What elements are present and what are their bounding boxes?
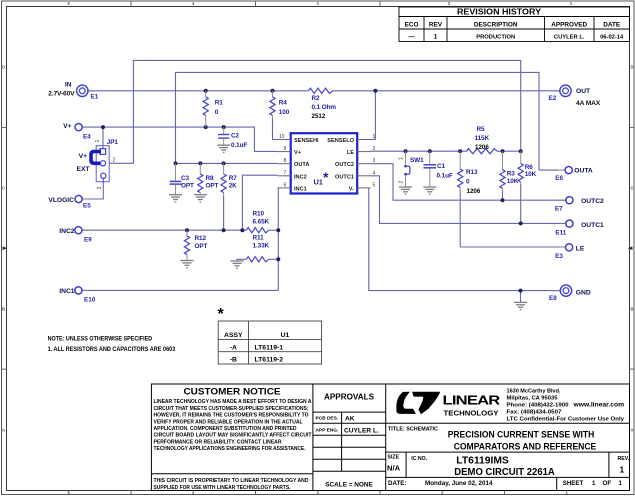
svg-text:R6: R6: [525, 164, 534, 171]
svg-text:E1: E1: [91, 94, 99, 101]
svg-text:0: 0: [466, 179, 470, 186]
size / ic no / rev row: [387, 455, 630, 478]
terminal E9: [75, 227, 82, 234]
terminal E2 lead: [554, 90, 561, 92]
svg-text:OUTC1: OUTC1: [581, 222, 604, 229]
terminal E4 lead: [82, 126, 89, 128]
svg-text:2K: 2K: [229, 183, 237, 190]
svg-text:5: 5: [373, 182, 376, 188]
svg-text:LT6119-1: LT6119-1: [255, 344, 284, 351]
ground under C1: [423, 187, 436, 194]
svg-text:*: *: [323, 169, 329, 185]
svg-text:JP1: JP1: [107, 139, 119, 146]
terminal E2: [560, 85, 571, 96]
resistor R3: [500, 151, 505, 191]
terminal E3 lead: [559, 246, 566, 248]
svg-text:E10: E10: [84, 297, 96, 304]
svg-text:TECHNOLOGY APPLICATIONS ENGINE: TECHNOLOGY APPLICATIONS ENGINEERING FOR …: [154, 446, 306, 452]
wire R11 right: [269, 258, 279, 260]
svg-text:LE: LE: [576, 246, 585, 253]
svg-text:-B: -B: [230, 357, 237, 364]
svg-text:SIZE: SIZE: [388, 455, 400, 461]
wire R10 right to INC1 node: [269, 229, 279, 231]
svg-text:REVISION HISTORY: REVISION HISTORY: [457, 8, 542, 17]
svg-text:C: C: [630, 186, 633, 191]
svg-text:R3: R3: [507, 171, 516, 178]
svg-text:1630 McCarthy Blvd.: 1630 McCarthy Blvd.: [507, 389, 561, 395]
wire pin3 OUTC2 to E7: [371, 164, 567, 201]
svg-text:DESCRIPTION: DESCRIPTION: [474, 21, 518, 28]
svg-text:E2: E2: [549, 95, 557, 102]
wire IN line left of R2: [87, 90, 308, 92]
wire LE rail right of R5: [497, 150, 521, 152]
svg-text:CUYLER L.: CUYLER L.: [554, 35, 585, 41]
svg-text:0.1uF: 0.1uF: [231, 142, 247, 149]
svg-text:SENSELO: SENSELO: [327, 138, 354, 144]
note text: [48, 337, 176, 354]
svg-text:VLOGIC: VLOGIC: [48, 197, 74, 204]
svg-text:LT6119-2: LT6119-2: [255, 357, 284, 364]
svg-text:SUPPLIED FOR USE WITH LINEAR T: SUPPLIED FOR USE WITH LINEAR TECHNOLOGY …: [154, 485, 291, 491]
wire IN line right of R2 to OUT: [333, 90, 561, 92]
svg-text:NOTE: UNLESS OTHERWISE SPECIFI: NOTE: UNLESS OTHERWISE SPECIFIED: [48, 337, 153, 343]
wire E4 to JP1 pin1: [102, 127, 104, 149]
svg-text:APP ENG.: APP ENG.: [316, 428, 339, 434]
svg-text:3: 3: [97, 187, 103, 190]
title block frame: [151, 384, 629, 491]
svg-text:R2: R2: [312, 95, 321, 102]
Linear Technology logo: [396, 392, 500, 418]
svg-text:1: 1: [434, 34, 438, 41]
wire R6 bottom: [520, 185, 522, 224]
svg-text:R13: R13: [466, 169, 478, 176]
jumper JP1: [91, 146, 109, 182]
customer notice: [154, 387, 313, 491]
svg-text:PCB DES.: PCB DES.: [316, 416, 339, 422]
node IN: [48, 82, 75, 98]
svg-text:OPT: OPT: [206, 183, 219, 190]
svg-text:A: A: [2, 428, 5, 433]
svg-text:115K: 115K: [475, 135, 490, 142]
svg-text:06-02-14: 06-02-14: [600, 35, 624, 41]
svg-text:COMPARATORS AND REFERENCE: COMPARATORS AND REFERENCE: [454, 441, 597, 452]
terminal E10: [75, 287, 82, 294]
svg-text:6.65K: 6.65K: [253, 218, 270, 225]
svg-text:E11: E11: [555, 230, 566, 237]
capacitor C1: [424, 151, 437, 187]
svg-text:2512: 2512: [312, 113, 326, 120]
svg-text:DATE: DATE: [603, 21, 621, 28]
svg-text:U1: U1: [314, 178, 323, 187]
wire V+ rail: [82, 127, 278, 151]
svg-text:Monday, June 02, 2014: Monday, June 02, 2014: [425, 480, 493, 487]
svg-text:R10: R10: [253, 210, 265, 217]
svg-text:N/A: N/A: [387, 464, 401, 473]
resistor R12: [184, 230, 189, 260]
wire R11 left stub to ground: [237, 259, 246, 261]
svg-text:1. ALL RESISTORS AND CAPACITO: 1. ALL RESISTORS AND CAPACITORS ARE 0603: [48, 347, 176, 353]
date row: [388, 480, 623, 487]
resistor R6: [518, 151, 523, 185]
svg-text:B: B: [630, 307, 633, 312]
svg-text:V+: V+: [294, 150, 302, 156]
svg-text:*: *: [218, 306, 225, 323]
svg-text:V+: V+: [63, 123, 71, 130]
svg-text:IC NO.: IC NO.: [411, 456, 427, 462]
svg-text:10K: 10K: [507, 178, 519, 185]
resistor R1: [203, 91, 208, 127]
op-amp U1: [278, 133, 371, 193]
svg-text:E5: E5: [83, 203, 91, 210]
svg-text:R8: R8: [206, 175, 215, 182]
revision history table: [399, 7, 630, 42]
svg-text:Phone: (408)432-1900: Phone: (408)432-1900: [507, 403, 569, 409]
svg-text:INC1: INC1: [294, 186, 307, 192]
approvals block: [316, 393, 379, 489]
svg-text:R4: R4: [279, 100, 288, 107]
svg-text:LE: LE: [347, 150, 354, 156]
svg-text:CUSTOMER NOTICE: CUSTOMER NOTICE: [184, 387, 281, 397]
terminal E8 lead: [554, 290, 561, 292]
svg-text:R12: R12: [195, 235, 207, 242]
ground under SW1: [399, 187, 412, 194]
wire LE rail left of R5: [371, 150, 467, 152]
wire OUTA rail: [176, 162, 278, 164]
svg-text:SHEET: SHEET: [563, 480, 584, 487]
svg-text:TECHNOLOGY: TECHNOLOGY: [444, 411, 499, 418]
svg-text:E8: E8: [549, 295, 557, 302]
wire INC2 line: [82, 229, 246, 231]
svg-text:INC1: INC1: [59, 288, 75, 295]
svg-text:TITLE: SCHEMATIC: TITLE: SCHEMATIC: [388, 427, 438, 433]
terminal E7 lead: [559, 199, 566, 201]
svg-text:10: 10: [279, 134, 285, 140]
terminal E1 lead: [88, 90, 95, 92]
switch SW1: [404, 151, 410, 187]
svg-text:HOWEVER, IT REMAINS THE CUSTOM: HOWEVER, IT REMAINS THE CUSTOMER'S RESPO…: [154, 413, 309, 419]
svg-text:—: —: [408, 34, 415, 41]
terminal E11: [566, 220, 573, 227]
svg-text:SENSEHI: SENSEHI: [294, 138, 319, 144]
terminal E1: [77, 85, 88, 96]
resistor R8: [198, 163, 203, 194]
svg-text:100: 100: [279, 109, 290, 116]
svg-text:ECO: ECO: [405, 21, 419, 28]
svg-text:7: 7: [284, 170, 287, 176]
svg-text:www.linear.com: www.linear.com: [572, 402, 624, 409]
svg-text:C1: C1: [437, 163, 446, 170]
svg-text:R7: R7: [229, 175, 238, 182]
svg-text:0: 0: [215, 109, 219, 116]
svg-text:SW1: SW1: [410, 157, 424, 164]
svg-text:2: 2: [373, 146, 376, 152]
svg-text:B: B: [2, 307, 5, 312]
svg-text:CUYLER L.: CUYLER L.: [344, 427, 379, 434]
ground under C3: [169, 195, 182, 202]
wire gnd stub on GND line: [520, 291, 522, 303]
svg-text:PRECISION CURRENT SENSE WITH: PRECISION CURRENT SENSE WITH: [448, 429, 595, 440]
resistor R11: [246, 257, 268, 262]
terminal E10 lead: [82, 289, 89, 291]
resistor R2: [309, 88, 333, 93]
svg-text:E7: E7: [555, 205, 563, 212]
svg-text:E4: E4: [83, 134, 91, 141]
resistor R10: [246, 228, 268, 233]
svg-text:VERIFY PROPER AND RELIABLE OPE: VERIFY PROPER AND RELIABLE OPERATION IN …: [154, 419, 304, 425]
wire LE line to E3: [460, 246, 566, 248]
resistor R5: [467, 149, 498, 154]
svg-text:0.1 Ohm: 0.1 Ohm: [312, 104, 337, 111]
svg-text:REV: REV: [429, 21, 443, 28]
assembly table: [218, 306, 322, 364]
svg-text:1: 1: [592, 480, 596, 487]
svg-text:4: 4: [373, 170, 376, 176]
svg-text:PERFORMANCE OR RELIABILITY. C: PERFORMANCE OR RELIABILITY. CONTACT LINE…: [154, 439, 282, 445]
title row: [388, 427, 596, 452]
svg-text:LT6119IMS: LT6119IMS: [456, 456, 509, 467]
svg-text:C2: C2: [231, 132, 240, 139]
svg-text:C: C: [2, 186, 5, 191]
svg-text:E9: E9: [84, 237, 92, 244]
svg-text:CIRCUIT BOARD LAYOUT MAY SIGNI: CIRCUIT BOARD LAYOUT MAY SIGNIFICANTLY A…: [154, 433, 313, 439]
svg-text:LTC Confidential-For Customer: LTC Confidential-For Customer Use Only: [507, 417, 626, 423]
terminal E4: [75, 124, 82, 131]
wire pin7 INC2: [242, 175, 277, 230]
wire R13 bottom to LE line: [459, 190, 461, 247]
svg-text:THIS CIRCUIT IS PROPRIETARY TO: THIS CIRCUIT IS PROPRIETARY TO LINEAR TE…: [154, 478, 309, 484]
svg-text:10K: 10K: [525, 171, 537, 178]
svg-text:1: 1: [619, 480, 623, 487]
ground under C2: [217, 145, 230, 152]
svg-text:1: 1: [620, 465, 625, 475]
svg-text:4A MAX: 4A MAX: [576, 100, 601, 107]
wire R7 bottom: [223, 196, 225, 231]
svg-text:Fax: (408)434-0507: Fax: (408)434-0507: [507, 410, 562, 416]
svg-text:AK: AK: [345, 415, 355, 422]
terminal E11 lead: [559, 222, 566, 224]
svg-text:E6: E6: [555, 175, 563, 182]
wire pin6 INC1 vertical: [277, 188, 280, 291]
svg-text:DATE:: DATE:: [388, 480, 406, 487]
svg-text:CIRCUIT THAT MEETS CUSTOMER-SU: CIRCUIT THAT MEETS CUSTOMER-SUPPLIED SPE…: [154, 406, 309, 412]
terminal E8: [560, 285, 571, 296]
svg-text:EXT: EXT: [76, 166, 90, 173]
ground under R8: [194, 195, 207, 202]
svg-text:9: 9: [284, 146, 287, 152]
terminal E7: [566, 197, 573, 204]
svg-text:D: D: [2, 65, 5, 70]
svg-text:1: 1: [95, 140, 101, 143]
svg-text:V+: V+: [79, 153, 87, 160]
svg-text:OUTC2: OUTC2: [581, 198, 604, 205]
svg-text:LINEAR TECHNOLOGY HAS MADE A B: LINEAR TECHNOLOGY HAS MADE A BEST EFFORT…: [154, 399, 312, 405]
svg-text:PRODUCTION: PRODUCTION: [476, 35, 515, 41]
terminal E5 lead: [82, 198, 89, 200]
svg-text:V-: V-: [349, 186, 354, 192]
wire R4 bottom to pin10: [273, 119, 278, 140]
ground on GND line: [514, 302, 527, 309]
svg-text:C3: C3: [181, 175, 190, 182]
resistor R13: [458, 151, 463, 190]
ground under R12: [181, 261, 194, 268]
svg-text:APPROVED: APPROVED: [551, 21, 587, 28]
svg-text:OF: OF: [603, 480, 612, 487]
wire rail2 OUTA to E6: [176, 72, 559, 170]
svg-text:APPROVALS: APPROVALS: [324, 393, 374, 402]
ground at R11: [231, 261, 244, 268]
svg-text:OUTA: OUTA: [574, 168, 593, 175]
wire rail1 JP1 pin2 to LE pullup: [109, 60, 521, 163]
svg-text:2.7V-60V: 2.7V-60V: [48, 90, 75, 97]
svg-text:1: 1: [373, 134, 376, 140]
node OUT: [576, 88, 601, 107]
svg-text:Milpitas, CA 95035: Milpitas, CA 95035: [507, 396, 558, 402]
resistor R7: [221, 163, 226, 195]
svg-text:OUT: OUT: [576, 88, 591, 95]
svg-text:OUTC2: OUTC2: [335, 162, 354, 168]
svg-text:A: A: [630, 428, 633, 433]
wire SENSELO pin1 to IN line: [371, 91, 376, 140]
terminal E5: [75, 195, 82, 202]
svg-text:D: D: [630, 65, 633, 70]
resistor R4: [270, 91, 275, 119]
svg-text:1.33K: 1.33K: [253, 242, 270, 249]
terminal E6 lead: [558, 169, 565, 171]
wire R3 bottom: [502, 190, 504, 200]
svg-text:R11: R11: [253, 234, 265, 241]
svg-text:SCALE = NONE: SCALE = NONE: [325, 482, 373, 489]
terminal E9 lead: [82, 229, 89, 231]
svg-text:1: 1: [399, 157, 405, 160]
svg-text:DEMO CIRCUIT 2261A: DEMO CIRCUIT 2261A: [454, 467, 555, 478]
wire pin4 OUTC1 to E11: [371, 176, 567, 224]
svg-text:E3: E3: [555, 253, 563, 260]
terminal E6: [565, 167, 572, 174]
svg-text:U1: U1: [281, 332, 290, 339]
svg-text:OUTA: OUTA: [294, 162, 309, 168]
svg-text:INC2: INC2: [59, 228, 75, 235]
svg-text:0.1uF: 0.1uF: [437, 172, 453, 179]
svg-text:OUTC1: OUTC1: [335, 174, 354, 180]
svg-text:ASSY: ASSY: [224, 332, 243, 339]
svg-text:6: 6: [284, 182, 287, 188]
svg-text:1206: 1206: [475, 144, 489, 151]
svg-text:OPT: OPT: [195, 243, 208, 250]
capacitor C2: [218, 127, 229, 145]
svg-text:R1: R1: [215, 100, 224, 107]
wire JP1 pin3 to E5: [82, 178, 103, 199]
svg-text:1206: 1206: [467, 188, 481, 195]
svg-text:3: 3: [373, 158, 376, 164]
svg-text:REV.: REV.: [618, 456, 630, 462]
svg-text:2: 2: [113, 157, 116, 163]
svg-text:-A: -A: [230, 344, 237, 351]
svg-text:R5: R5: [477, 126, 486, 133]
terminal E3: [566, 244, 573, 251]
capacitor C3: [170, 163, 182, 194]
svg-text:GND: GND: [576, 289, 591, 296]
svg-text:2: 2: [399, 181, 405, 184]
wire INC1 line: [82, 289, 278, 291]
svg-text:IN: IN: [65, 82, 72, 89]
svg-text:INC2: INC2: [294, 174, 307, 180]
svg-text:OPT: OPT: [181, 183, 194, 190]
wire pin5 V- to GND E8: [369, 188, 561, 291]
svg-text:APPLICATION. COMPONENT SUBSTI: APPLICATION. COMPONENT SUBSTITUTION AND …: [154, 426, 297, 432]
svg-text:LINEAR: LINEAR: [443, 394, 501, 408]
svg-text:8: 8: [284, 158, 287, 164]
